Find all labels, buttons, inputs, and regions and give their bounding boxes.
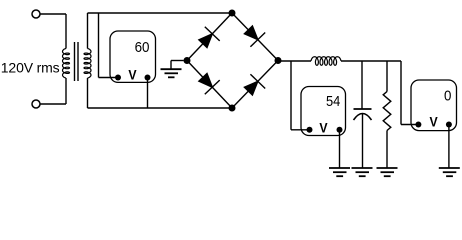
- svg-text:V: V: [319, 119, 328, 135]
- svg-text:120V rms: 120V rms: [1, 60, 60, 76]
- svg-text:54: 54: [326, 93, 340, 110]
- svg-text:0: 0: [444, 88, 451, 105]
- svg-text:V: V: [430, 114, 439, 130]
- svg-text:V: V: [128, 67, 137, 83]
- svg-text:60: 60: [135, 39, 150, 56]
